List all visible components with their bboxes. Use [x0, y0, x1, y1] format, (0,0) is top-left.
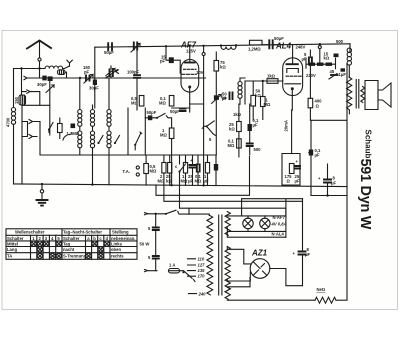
svg-text:nebeneinan.: nebeneinan. [111, 236, 135, 241]
resistor 175ohm [285, 164, 295, 184]
svg-text:rechts: rechts [111, 254, 124, 259]
loop rect nf [282, 154, 300, 186]
coil L1 antenna [45, 66, 63, 69]
tuning arc arrow [63, 134, 72, 140]
table row mittel [7, 241, 123, 246]
switch mains [165, 210, 188, 215]
wire antenna rail [14, 68, 46, 70]
capacitor 0,1uF top [309, 148, 321, 158]
transformer primary [207, 215, 213, 295]
capacitor 5uF [302, 50, 312, 98]
capacitor padder black [67, 124, 80, 137]
svg-text:240: 240 [198, 292, 207, 297]
coil bandfilter 1b [78, 131, 82, 135]
svg-text:1kΩ: 1kΩ [233, 112, 242, 117]
svg-text:Schaub: Schaub [364, 130, 373, 159]
wire right top h [311, 119, 347, 121]
wire cap bank [306, 58, 336, 69]
svg-text:μF: μF [305, 252, 311, 257]
wire heater mid [227, 227, 286, 232]
label N-AF7 [271, 215, 287, 227]
transformer sec heater [225, 212, 230, 236]
wire coil to bus [13, 124, 15, 184]
transformer output core [356, 80, 359, 109]
capacitor 100pF [127, 50, 140, 111]
svg-text:248V: 248V [296, 45, 306, 50]
wire 20mA drop [291, 110, 293, 154]
svg-text:4700: 4700 [6, 117, 11, 127]
capacitor 500pF tone [334, 54, 339, 58]
core trimmer box [58, 118, 63, 139]
svg-text:591 Dyn W: 591 Dyn W [357, 159, 373, 230]
svg-text:1,2MΩ: 1,2MΩ [248, 47, 261, 52]
switch selector [180, 271, 196, 282]
wire rail155 [40, 154, 147, 156]
ground bus [14, 184, 348, 187]
wire rf rail y78 [27, 77, 206, 79]
capacitor 50pF det [222, 92, 233, 102]
wire mains bottom [148, 270, 158, 272]
svg-text:nacht: nacht [63, 247, 75, 252]
node b+ [319, 43, 321, 45]
svg-text:1kΩ: 1kΩ [267, 74, 276, 79]
node 8uF junction [326, 194, 328, 196]
node psu top [242, 199, 303, 238]
resistor 25k b [229, 104, 241, 157]
capacitor line filter 1 [148, 214, 159, 256]
switch 7 d [134, 132, 142, 150]
terminal TA [123, 166, 140, 176]
resistor 1uF row [204, 155, 210, 186]
wire nested h2 [164, 195, 347, 201]
capacitor line filter 2 [148, 255, 159, 271]
wire box bottom tie [22, 104, 50, 106]
capacitor 25uF electrolytic [188, 155, 196, 185]
svg-text:50pF: 50pF [147, 110, 157, 115]
wire det drop [128, 108, 145, 155]
resistor 0,5M vol [144, 155, 157, 185]
switch band [156, 114, 172, 119]
capacitor trim k [48, 76, 53, 81]
resistor 50k [251, 81, 261, 120]
capacitor bank c1 [309, 63, 316, 66]
svg-text:Links: Links [111, 241, 123, 246]
resistor 400ohm [308, 98, 322, 120]
wire af7 pins down [172, 104, 204, 108]
svg-text:pF: pF [160, 59, 166, 64]
coil osc b [107, 131, 111, 135]
components row: resistor 2M [158, 155, 167, 195]
lamp N-AF7 [243, 216, 253, 232]
wire v from rail [94, 47, 96, 108]
resistor 1,2Mohm [248, 40, 262, 51]
svg-text:MΩ: MΩ [150, 169, 157, 174]
resistor 0,5M af7 [131, 96, 144, 107]
switch wave contacts [22, 120, 33, 139]
transformer sec rect heater [225, 287, 230, 299]
wire b+ drop2 [319, 49, 321, 63]
wire az1 plates [227, 247, 251, 281]
svg-text:pF: pF [222, 96, 228, 101]
capacitor bank c2 [317, 63, 324, 66]
svg-text:Schalter: Schalter [63, 236, 80, 241]
resistor 0,1M tn [228, 139, 242, 149]
node bus dots [41, 183, 43, 185]
wire bf2 [92, 105, 94, 185]
svg-text:b: b [93, 236, 96, 241]
svg-text:N·AL4: N·AL4 [272, 232, 285, 237]
svg-text:MΩ: MΩ [228, 143, 235, 148]
svg-text:pF: pF [84, 70, 90, 75]
svg-text:μF: μF [295, 179, 301, 184]
capacitor 0,1uF row [195, 155, 202, 185]
label 15k [324, 52, 330, 61]
wire nested h1 [156, 157, 250, 196]
lamp N-AL4 [260, 216, 270, 232]
svg-text:MΩ: MΩ [131, 101, 138, 106]
capacitor 50uF coupling [262, 36, 284, 48]
switch contact b [22, 90, 30, 93]
svg-text:Wellenschalter: Wellenschalter [15, 230, 45, 235]
table Wellenschalter [6, 229, 137, 259]
resistor Netz [315, 287, 336, 303]
capacitor 8uF a [293, 199, 311, 286]
svg-text:AL4: AL4 [275, 42, 292, 51]
wire trim col [49, 81, 51, 135]
capacitor 8uF b [318, 164, 337, 196]
wire screen line [203, 46, 205, 185]
wire left drop [13, 69, 15, 108]
transformer sec hv [225, 247, 230, 294]
svg-text:Lang: Lang [7, 247, 17, 252]
wire to fork [63, 66, 69, 68]
switch 7 b [97, 136, 103, 145]
capacitor 50pF [104, 43, 114, 55]
wire AL4 grid [245, 80, 283, 82]
capacitor 1uF [339, 68, 347, 77]
resistor 1M row [181, 155, 188, 185]
wire az1 heater [227, 277, 250, 286]
ground symbol [37, 184, 48, 206]
wire grid cap AF7 [166, 46, 169, 60]
svg-text:MΩ: MΩ [159, 101, 166, 106]
coil IF to AL4 [220, 44, 237, 49]
svg-text:125V: 125V [186, 49, 196, 54]
coil bandfilter 1a [79, 78, 81, 110]
svg-text:Netz: Netz [317, 287, 326, 292]
svg-text:4V 0,8A: 4V 0,8A [271, 222, 287, 227]
wire stem to rail2 [39, 69, 41, 79]
svg-text:Stellung: Stellung [112, 230, 129, 235]
svg-text:1μF: 1μF [339, 72, 347, 77]
svg-text:50 W: 50 W [140, 242, 150, 247]
node rail dots [165, 45, 167, 47]
coil field choke [347, 48, 351, 52]
coil reaction [238, 78, 245, 104]
wire second drop [21, 69, 23, 96]
wire bottom run [227, 299, 315, 301]
svg-text:Tag: Tag [63, 241, 71, 246]
capacitor osc trimmer [106, 66, 115, 78]
svg-text:AZ1: AZ1 [251, 249, 268, 258]
wire top rail y46 [95, 44, 350, 47]
mains terminals [145, 213, 148, 272]
svg-text:d: d [106, 236, 109, 241]
resistor 75k [214, 52, 226, 155]
wire speaker branch [349, 46, 351, 52]
wire grid drop [244, 81, 246, 104]
svg-text:N·AF7: N·AF7 [273, 215, 286, 220]
capacitor 0,1uF b [248, 104, 259, 143]
svg-text:S-Trennung: S-Trennung [63, 254, 87, 259]
capacitor 30pF [89, 80, 99, 91]
resistor 1M al4 [261, 80, 271, 120]
wire N-AL4 line [227, 233, 286, 238]
capacitor 50uF cath [170, 109, 186, 115]
wire to transformer top [188, 214, 209, 215]
tube AF7 [181, 46, 199, 112]
antenna [27, 41, 51, 69]
wire b+ drop [319, 44, 321, 45]
switch 4 [202, 121, 216, 142]
switch arm S1 [105, 70, 118, 79]
table row schalter [7, 236, 135, 241]
speaker cone [378, 83, 391, 107]
tube AZ1 [250, 259, 270, 279]
table header texts [15, 230, 129, 235]
node connector circle [318, 46, 321, 49]
svg-text:Schalter: Schalter [7, 236, 24, 241]
resistor 14ohm [58, 70, 66, 75]
svg-text:10V: 10V [196, 70, 204, 75]
svg-text:110: 110 [198, 256, 205, 261]
svg-text:Tag–Nacht-Schalter: Tag–Nacht-Schalter [63, 230, 102, 235]
svg-text:kΩ: kΩ [324, 56, 330, 61]
wire nested h3 [180, 201, 286, 216]
transformer output primary [347, 77, 352, 114]
svg-text:T.A.: T.A. [123, 169, 130, 174]
wire al4 cath to loop [291, 109, 294, 111]
svg-text:kΩ: kΩ [229, 127, 235, 132]
transformer core [219, 215, 222, 295]
wire right drops [309, 64, 347, 301]
trimmer arrow k [46, 85, 54, 93]
svg-text:Mittel: Mittel [7, 241, 18, 246]
node j1 [79, 77, 81, 79]
resistor 1M if [160, 119, 174, 186]
svg-text:127: 127 [198, 263, 206, 268]
coil osc a [107, 110, 111, 114]
node dot2 [20, 67, 22, 69]
svg-text:30pF: 30pF [37, 82, 47, 87]
node earth fork [67, 60, 72, 66]
coil 4700 [6, 108, 16, 128]
wire row rail [147, 154, 216, 156]
capacitor 30pF b [42, 76, 46, 81]
svg-text:oben: oben [111, 247, 121, 252]
svg-text:50pF: 50pF [104, 50, 114, 55]
wire osc [108, 78, 110, 185]
voltage taps [188, 256, 207, 296]
node connector screen [202, 53, 205, 56]
wire box down [21, 105, 23, 184]
wire box to rail [65, 72, 67, 78]
capacitor 500pF b [247, 144, 261, 156]
table X marks [31, 241, 109, 258]
svg-text:220V: 220V [306, 73, 316, 78]
svg-text:45: 45 [330, 69, 335, 74]
switch contact ant [24, 76, 27, 79]
svg-text:500: 500 [254, 147, 262, 152]
svg-text:MΩ: MΩ [264, 102, 271, 107]
svg-text:20mA: 20mA [284, 120, 289, 131]
resistor 25k [166, 155, 172, 185]
svg-text:135: 135 [198, 268, 206, 273]
node mains dot [155, 213, 157, 215]
tube AL4 [283, 45, 303, 110]
coil bandfilter 2a [90, 110, 94, 114]
svg-text:μF: μF [204, 179, 210, 184]
svg-text:50μF: 50μF [170, 109, 180, 114]
capacitor padding trimmer [131, 43, 140, 53]
svg-text:150: 150 [14, 96, 19, 104]
wire az1 cathode [270, 269, 303, 286]
svg-text:50μF: 50μF [274, 36, 284, 41]
wire contact b [31, 92, 40, 106]
switch 7 c [114, 136, 120, 145]
svg-text:μF: μF [315, 153, 321, 158]
capacitor bank c3 [326, 63, 333, 66]
svg-text:30pF: 30pF [89, 86, 99, 91]
wire mains top [148, 213, 167, 215]
capacitor 15pF grid [160, 55, 180, 74]
svg-text:MΩ: MΩ [181, 179, 188, 184]
wire contact to grid [33, 122, 40, 156]
svg-text:μF: μF [253, 123, 259, 128]
fuse 1A [169, 263, 180, 273]
coil 150 box [14, 95, 26, 105]
speaker magnet [365, 81, 378, 110]
svg-text:170: 170 [198, 274, 206, 279]
table row lang [7, 247, 121, 252]
resistor 0,1M af7 [159, 96, 174, 107]
wire heater run top [227, 215, 286, 217]
svg-text:TA: TA [7, 254, 12, 259]
switch c [175, 155, 186, 201]
wire bf1 [79, 126, 81, 155]
svg-text:MΩ: MΩ [160, 133, 167, 138]
capacitor 90pF trim [212, 95, 227, 104]
svg-text:kΩ: kΩ [220, 65, 226, 70]
transformer output secondary [361, 87, 365, 103]
capacitor 150pF trimmer [83, 65, 93, 83]
svg-text:500: 500 [336, 39, 344, 44]
capacitor 25uF cath [295, 159, 301, 184]
capacitor 45 trimmer [329, 69, 338, 79]
wire netz to right [336, 299, 347, 301]
svg-text:100pF: 100pF [127, 70, 140, 75]
switch 7 a [48, 123, 53, 133]
svg-text:1 A: 1 A [169, 263, 175, 268]
table row ta [7, 254, 124, 259]
coil bandfilter 2b [90, 131, 94, 135]
resistor 1k grid stopper [267, 74, 278, 84]
capacitor 50pF if [145, 110, 156, 120]
svg-text:μF: μF [331, 181, 337, 186]
wire nested drop a [188, 208, 190, 214]
capacitor black row [214, 155, 218, 186]
node antenna junction [38, 67, 40, 69]
